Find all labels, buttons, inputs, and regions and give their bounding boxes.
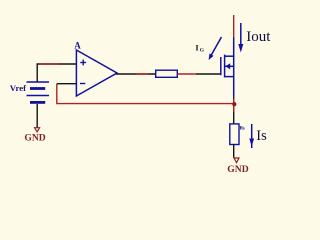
node junction dot bbox=[232, 102, 236, 106]
svg-text:Iout: Iout bbox=[246, 29, 271, 45]
svg-text:GND: GND bbox=[24, 133, 45, 144]
wire: resistor to gate (red segment) bbox=[177, 73, 196, 75]
voltage source Vref (battery) bbox=[27, 82, 50, 102]
wire: resistor to gate (black part) bbox=[196, 73, 220, 75]
resistor R1 (gate resistor) bbox=[156, 70, 178, 77]
svg-text:Vref: Vref bbox=[10, 83, 27, 93]
transistor Q1 body arrow bbox=[225, 63, 230, 69]
ground symbol (right) bbox=[234, 158, 239, 163]
op-amp - input mark bbox=[80, 83, 85, 85]
svg-text:GND: GND bbox=[227, 164, 248, 175]
current arrow Iout bbox=[238, 23, 243, 53]
wire: to op-amp + input (red segment) bbox=[40, 63, 59, 65]
op-amp + input mark bbox=[80, 60, 86, 66]
resistor Rs (sense resistor) bbox=[230, 124, 239, 145]
wire: to op-amp + input (black part) bbox=[37, 63, 77, 65]
wire: battery bottom to ground (black) bbox=[36, 104, 38, 127]
wire: feedback net red vertical stub at node bbox=[233, 99, 235, 113]
wire: battery top up bbox=[36, 64, 38, 82]
wire: op-amp - input (black) bbox=[57, 83, 77, 85]
op-amp U1 body bbox=[76, 50, 117, 96]
wire: feedback from node to op-amp - input (red) bbox=[57, 84, 234, 104]
current arrow Is bbox=[249, 124, 254, 148]
wire: drain to Iout (red) bbox=[233, 15, 235, 38]
svg-text:Rs: Rs bbox=[240, 127, 245, 132]
ground symbol (left) bbox=[35, 128, 40, 132]
wire: source down to Rs (black) bbox=[233, 97, 235, 124]
current arrow IG (gate current) bbox=[209, 37, 222, 60]
wire: Rs to ground (black) bbox=[233, 145, 235, 158]
svg-text:Is: Is bbox=[256, 128, 267, 144]
svg-text:G: G bbox=[200, 47, 205, 53]
wire: op-amp output (black) bbox=[116, 73, 156, 75]
svg-text:A: A bbox=[74, 41, 81, 51]
transistor Q1 (N-MOSFET) bbox=[221, 37, 234, 97]
wire: op-amp output (red segment) bbox=[136, 73, 148, 75]
